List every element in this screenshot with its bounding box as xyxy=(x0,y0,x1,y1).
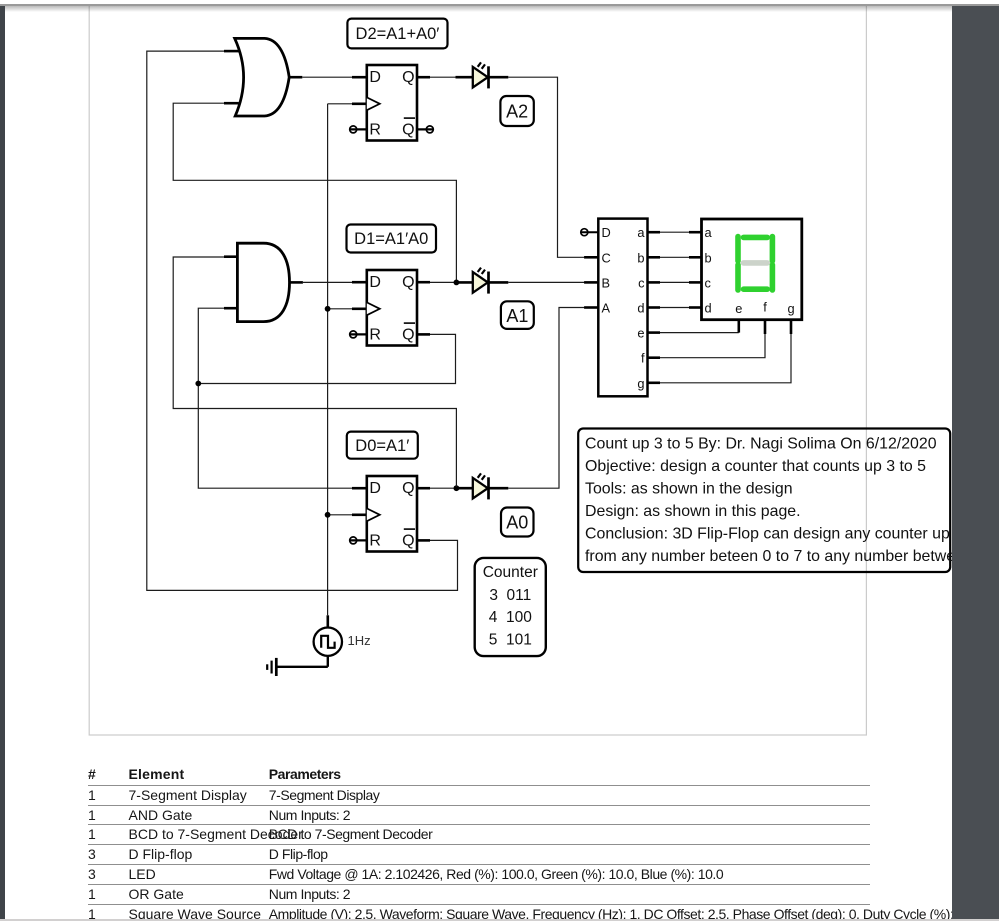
AND gate G2 xyxy=(237,243,289,321)
U1 pin R stub and bubble xyxy=(350,126,367,133)
svg-text:b: b xyxy=(637,250,644,265)
window chrome: top toolbar divider xyxy=(0,0,999,4)
wire: net A1 Q of U2 to LED D1 and feedback to OR input xyxy=(173,103,456,282)
svg-text:D: D xyxy=(369,274,381,291)
U2 pin Q stub xyxy=(417,281,430,284)
V1 top pin stub xyxy=(326,615,329,627)
junction: clock to U3 CLK xyxy=(325,512,331,518)
U2 pin CLK stub xyxy=(352,307,367,310)
wire: square wave to ground xyxy=(276,656,328,667)
U3 label Qbar xyxy=(402,529,415,549)
7-segment digit segment e (lit) xyxy=(735,265,741,290)
wire: net A1bar from U2 Qbar to AND input and U3 D xyxy=(198,308,455,488)
wire: decoder f output to display f pin xyxy=(660,334,765,358)
svg-text:a: a xyxy=(637,225,645,240)
U1 clock triangle xyxy=(367,97,380,110)
U5 input d stub xyxy=(689,306,702,309)
svg-text:c: c xyxy=(638,275,645,290)
label box D2=A1+A0' xyxy=(347,19,447,49)
U3 pin Q stub xyxy=(417,487,430,490)
svg-text:4 100: 4 100 xyxy=(489,609,532,626)
svg-text:Tools: as shown in the design: Tools: as shown in the design xyxy=(585,481,793,498)
U5 pin g stub xyxy=(790,320,793,334)
U1 pin Q stub xyxy=(417,76,430,79)
junction: A0 feedback tap xyxy=(454,485,460,491)
svg-text:D: D xyxy=(369,69,381,86)
svg-text:d: d xyxy=(705,301,712,316)
svg-text:a: a xyxy=(705,225,713,240)
BCD to 7-segment decoder U4 xyxy=(598,219,647,397)
G2 input 1 stub xyxy=(224,255,237,258)
svg-text:f: f xyxy=(641,351,645,366)
svg-text:D0=A1′: D0=A1′ xyxy=(355,437,409,455)
U3 pin D stub xyxy=(352,487,367,490)
svg-text:Q: Q xyxy=(402,532,414,549)
7-segment digit segment b (lit) xyxy=(770,237,776,261)
LED D1 triangle xyxy=(473,272,488,293)
U4 input D stub and bubble xyxy=(581,229,599,236)
U5 input c stub xyxy=(689,281,702,284)
svg-text:b: b xyxy=(705,250,712,265)
svg-text:from any number beteen 0 to 7: from any number beteen 0 to 7 to any num… xyxy=(585,548,999,565)
svg-text:C: C xyxy=(602,250,611,265)
label box A2 xyxy=(500,96,533,126)
svg-text:c: c xyxy=(705,275,712,290)
U4 input C stub xyxy=(584,256,598,259)
U2 pin D stub xyxy=(352,281,367,284)
wire: net A2 from LED D2 to decoder C input xyxy=(508,77,586,257)
label box A1 xyxy=(501,301,534,329)
window chrome: right panel xyxy=(952,6,999,919)
U5 pin f stub xyxy=(764,320,767,334)
schematic frame border xyxy=(89,6,866,736)
U3 clock triangle xyxy=(367,508,380,521)
LED D1 cathode bar xyxy=(487,272,490,294)
U4 input B stub xyxy=(584,281,598,284)
counter table box xyxy=(475,558,546,656)
svg-text:Objective: design a counter th: Objective: design a counter that counts … xyxy=(585,458,926,475)
U5 input b stub xyxy=(689,256,702,259)
7-segment digit segment d (lit) xyxy=(744,286,768,292)
U4 output g stub xyxy=(648,381,661,384)
svg-text:Q: Q xyxy=(402,326,414,343)
LED D1 cathode lead xyxy=(489,281,509,284)
U2 pin R stub and bubble xyxy=(350,331,367,338)
svg-text:f: f xyxy=(763,300,767,315)
U3 pin Qbar stub xyxy=(417,539,430,542)
wire: decoder e output to display e pin xyxy=(660,332,739,334)
U4 output e stub xyxy=(648,331,661,334)
LED D0 anode lead xyxy=(456,487,473,490)
wire: A0 feedback to AND input 1 xyxy=(173,257,456,488)
wire: AND G2 output to U2 D xyxy=(303,281,352,283)
G1 input 2 stub xyxy=(224,102,239,105)
svg-text:D2=A1+A0′: D2=A1+A0′ xyxy=(356,25,440,43)
svg-text:Design: as shown in this page.: Design: as shown in this page. xyxy=(585,503,801,520)
svg-text:Q: Q xyxy=(402,480,414,497)
wire: net A0bar from U3 Qbar to OR input 1 xyxy=(147,51,458,590)
svg-text:R: R xyxy=(369,326,381,343)
junction: A1 feedback tap xyxy=(454,280,460,286)
wire: decoder g output to display g pin xyxy=(660,334,791,383)
U3 pin R stub and bubble xyxy=(350,537,367,544)
wire: OR G1 output to U1 D xyxy=(302,76,352,78)
LED D2 anode lead xyxy=(456,76,473,79)
7-segment digit segment a (lit) xyxy=(744,235,768,241)
U5 input a stub xyxy=(689,231,702,234)
wire: net A0 from U3 Q to LED D0 and decoder A input xyxy=(430,308,586,489)
U4 output d stub xyxy=(648,306,661,309)
LED D0 cathode bar xyxy=(487,477,490,499)
svg-text:A0: A0 xyxy=(506,513,528,533)
LED D0 cathode lead xyxy=(489,487,509,490)
label box A0 xyxy=(501,508,534,537)
svg-text:D: D xyxy=(369,480,381,497)
G1 output stub xyxy=(289,76,302,79)
svg-text:1Hz: 1Hz xyxy=(348,633,371,648)
wire: LED D1 to decoder B input xyxy=(508,281,586,283)
LED D2 cathode lead xyxy=(489,76,509,79)
svg-text:A2: A2 xyxy=(506,102,528,122)
svg-text:Count up 3 to 5 By: Dr. Nagi S: Count up 3 to 5 By: Dr. Nagi Solima On 6… xyxy=(585,435,937,452)
svg-text:Q: Q xyxy=(402,69,414,86)
svg-text:e: e xyxy=(735,301,742,316)
U4 output b stub xyxy=(648,256,661,259)
LED D0 light ticks xyxy=(478,473,485,479)
ground symbol xyxy=(267,658,276,676)
G2 input 2 stub xyxy=(224,307,237,310)
U2 pin Qbar stub xyxy=(417,333,430,336)
U2 clock triangle xyxy=(367,302,380,315)
7-segment digit segment g (dim) xyxy=(744,260,768,266)
svg-text:D1=A1′A0: D1=A1′A0 xyxy=(354,230,428,248)
U1 pin CLK stub xyxy=(352,103,367,106)
svg-text:R: R xyxy=(369,121,381,138)
svg-text:Conclusion: 3D Flip-Flop can d: Conclusion: 3D Flip-Flop can design any … xyxy=(585,526,950,543)
U5 bottom labels e f g xyxy=(735,300,794,317)
U4 output c stub xyxy=(648,281,661,284)
LED D1 light ticks xyxy=(478,268,485,274)
svg-text:3 011: 3 011 xyxy=(489,587,531,604)
U2 label Qbar xyxy=(402,323,415,343)
OR gate G1 xyxy=(235,38,290,116)
U4 output a stub xyxy=(648,231,661,234)
G1 input 1 stub xyxy=(224,50,239,53)
svg-text:Q: Q xyxy=(402,121,414,138)
U1 label Qbar xyxy=(402,118,415,138)
LED D1 anode lead xyxy=(456,281,473,284)
LED D0 triangle xyxy=(473,478,488,499)
svg-text:A1: A1 xyxy=(506,306,528,326)
window chrome: bottom scrollbar strip xyxy=(0,919,999,921)
U3 pin CLK stub xyxy=(352,513,367,516)
U4 output f stub xyxy=(648,356,661,359)
description text box xyxy=(578,429,999,573)
svg-text:Q: Q xyxy=(402,274,414,291)
wire: clock net vertical from U1 CLK down to square wave source xyxy=(328,104,352,616)
svg-text:Counter: Counter xyxy=(483,564,538,581)
junction: A1bar node xyxy=(195,381,201,387)
LED D2 light ticks xyxy=(478,62,485,68)
U5 pin e stub xyxy=(737,320,740,333)
window chrome: left edge strip xyxy=(0,6,5,919)
junction: clock to U2 CLK xyxy=(325,306,331,312)
svg-text:d: d xyxy=(637,301,644,316)
LED D2 triangle xyxy=(473,67,488,88)
svg-text:A: A xyxy=(602,301,611,316)
svg-text:5 101: 5 101 xyxy=(489,631,532,648)
svg-text:R: R xyxy=(369,532,381,549)
label box D0=A1' xyxy=(347,432,418,459)
U4 input A stub xyxy=(584,306,598,309)
svg-text:B: B xyxy=(602,275,611,290)
svg-text:g: g xyxy=(637,376,644,391)
svg-text:D: D xyxy=(602,225,611,240)
wire: decoder outputs a-d to display inputs xyxy=(660,232,689,307)
U1 pin Qbar stub and bubble xyxy=(417,126,434,133)
D flip-flop U1 xyxy=(367,65,417,141)
square wave source V1 xyxy=(314,628,342,656)
svg-text:g: g xyxy=(787,301,794,316)
label box D1=A1'A0 xyxy=(347,225,437,253)
LED D2 cathode bar xyxy=(487,66,490,88)
U1 pin D stub xyxy=(352,76,367,79)
wire: U1 Q to LED D2 xyxy=(430,76,456,78)
D flip-flop U2 xyxy=(367,270,417,346)
svg-text:e: e xyxy=(637,326,644,341)
G2 output stub xyxy=(290,281,303,284)
7-segment display U5 body xyxy=(702,219,802,320)
D flip-flop U3 xyxy=(367,476,417,552)
7-segment digit segment c (lit) xyxy=(770,265,776,290)
7-segment digit segment f (lit) xyxy=(735,237,741,261)
